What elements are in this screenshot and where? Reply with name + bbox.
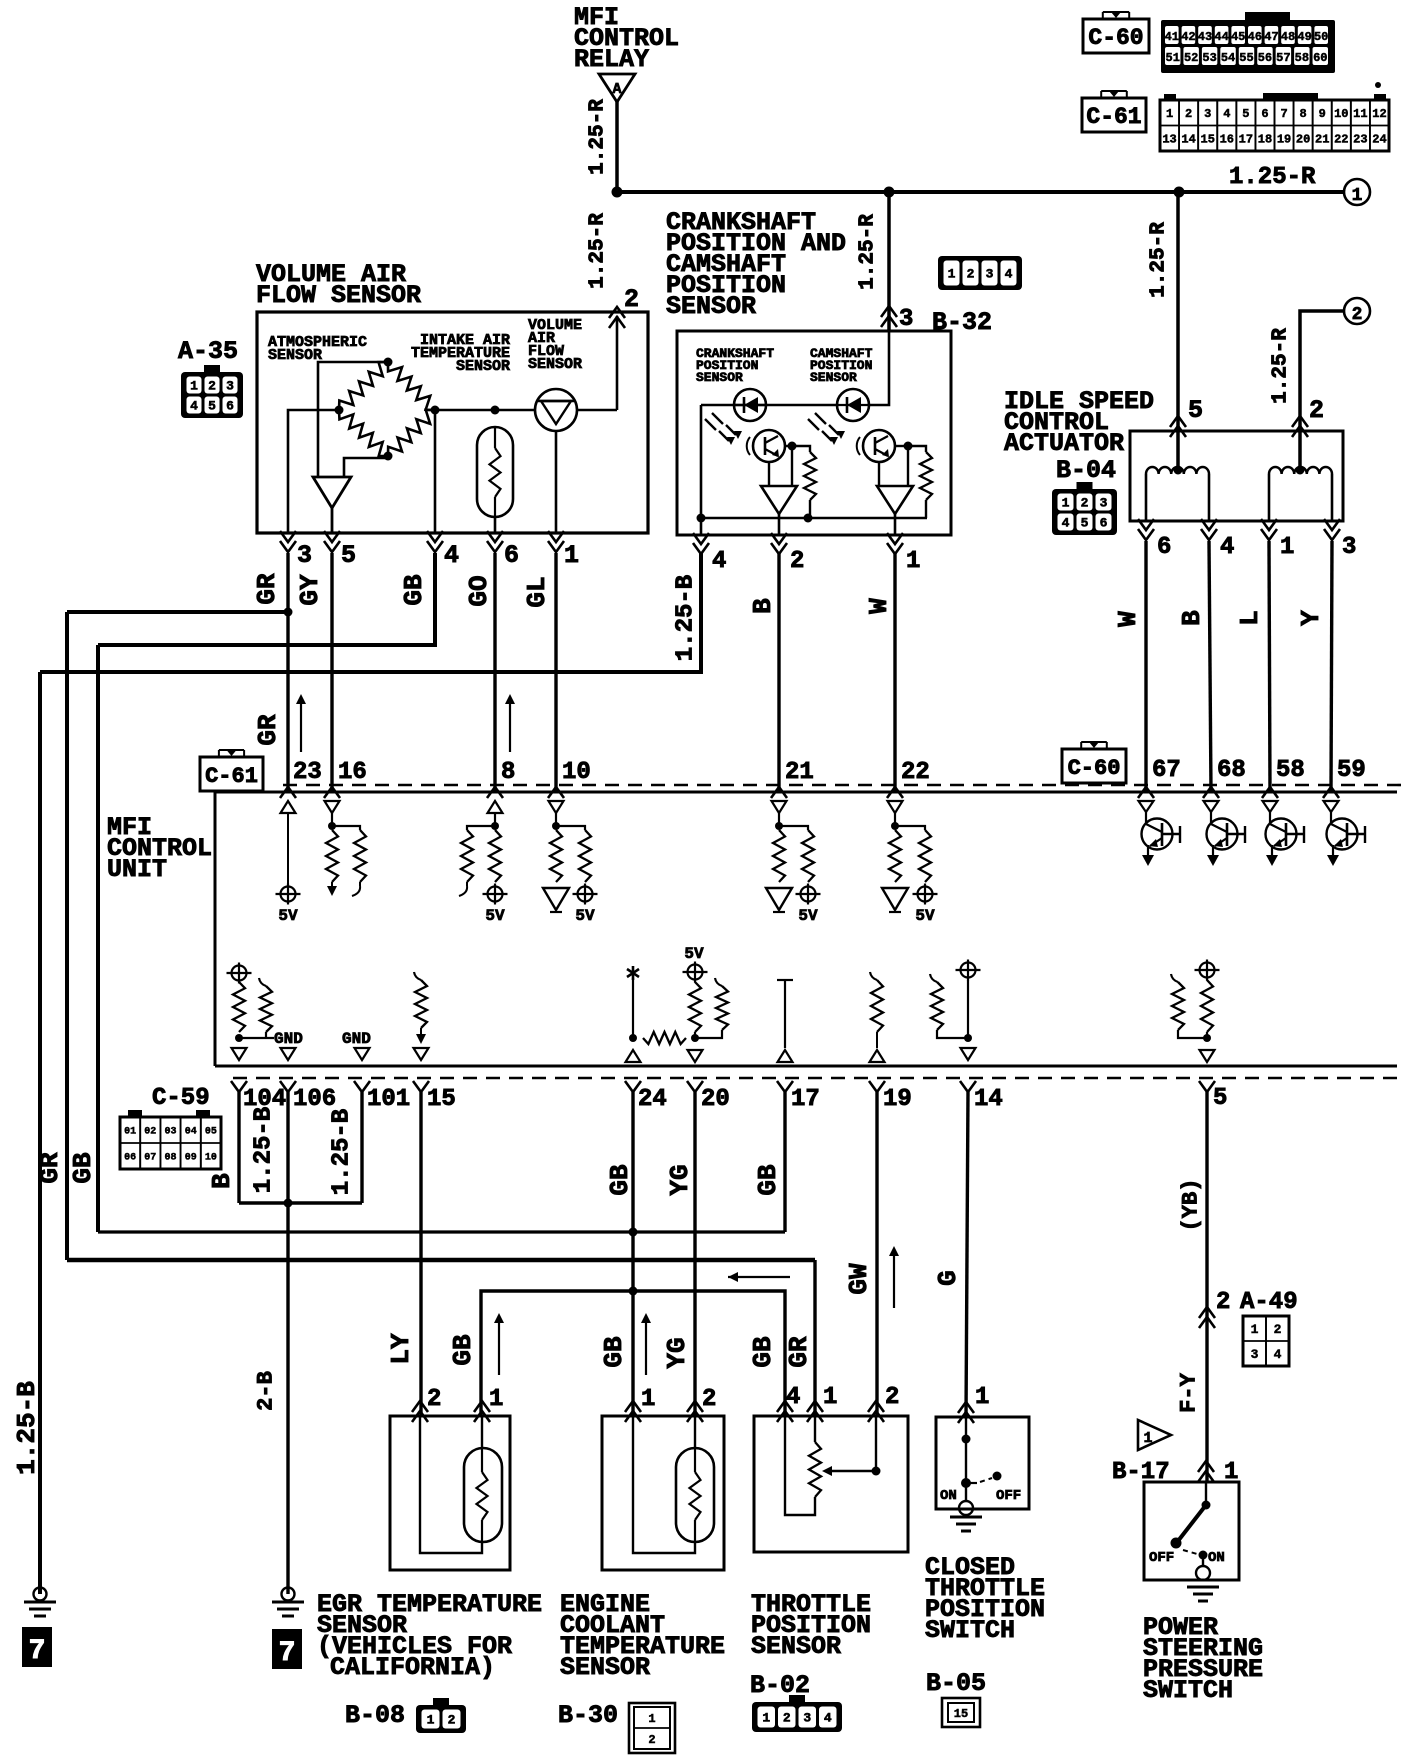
node crank phototransistor output	[788, 442, 797, 451]
svg-text:16: 16	[1220, 133, 1234, 147]
wire GR branch to left	[67, 610, 288, 614]
wire 1.25-B from B-32 pin4 turning left	[40, 553, 701, 672]
svg-text:57: 57	[1276, 51, 1290, 65]
transistor driver pin 59	[1324, 801, 1339, 812]
svg-text:C-59: C-59	[152, 1085, 210, 1112]
stray dot artifact	[1375, 82, 1381, 88]
svg-text:24: 24	[638, 1086, 667, 1113]
svg-text:SENSOR: SENSOR	[810, 370, 857, 385]
svg-text:1: 1	[1251, 1322, 1259, 1337]
pin 24 arrow and number	[625, 1081, 641, 1092]
svg-text:1: 1	[948, 267, 956, 282]
LED camshaft position sensor	[837, 389, 869, 421]
svg-text:GW: GW	[844, 1263, 874, 1295]
wire GR horizontal to TPS pin 1	[67, 1258, 815, 1263]
amplifier triangle cam	[877, 486, 913, 514]
node GR branch junction	[284, 608, 293, 617]
svg-text:B: B	[1177, 610, 1207, 626]
CTP dashed throw to OFF	[980, 1478, 992, 1482]
pin 104 internal: 5V source and resistors	[232, 966, 247, 981]
pin 1 arrow into power steering switch	[1198, 1461, 1214, 1472]
wire node to resistor cam	[908, 446, 926, 452]
connector C-60 pin diagram	[1245, 12, 1290, 20]
svg-text:1.25-R: 1.25-R	[587, 99, 610, 175]
svg-text:A-35: A-35	[178, 337, 238, 366]
svg-text:101: 101	[367, 1086, 410, 1113]
svg-text:B-32: B-32	[932, 308, 992, 337]
wire cam node to amplifier	[907, 446, 909, 486]
ISC coil 2	[1269, 467, 1332, 474]
pin 106 GND triangle	[281, 1048, 296, 1060]
svg-text:19: 19	[883, 1086, 912, 1113]
svg-text:03: 03	[164, 1127, 176, 1138]
svg-text:46: 46	[1248, 30, 1262, 44]
svg-text:SENSOR: SENSOR	[751, 1632, 841, 1661]
svg-text:08: 08	[164, 1153, 176, 1164]
connector B-04 pin diagram	[1077, 482, 1093, 490]
wire crank node to amplifier	[791, 446, 793, 486]
svg-text:10: 10	[562, 759, 591, 786]
svg-text:5V: 5V	[798, 907, 818, 925]
wire LED supply segment	[734, 404, 837, 407]
signal arrow up beside GR	[300, 702, 302, 752]
svg-text:5: 5	[208, 399, 216, 414]
svg-text:42: 42	[1181, 30, 1195, 44]
pin 4 entry arrow TPS	[777, 1401, 793, 1412]
svg-text:16: 16	[338, 759, 367, 786]
wire 1.25-B from pin 106	[286, 1092, 289, 1203]
svg-text:09: 09	[185, 1153, 197, 1164]
EGR temperature sensor box outline	[390, 1416, 510, 1570]
svg-text:1: 1	[1166, 107, 1173, 121]
wire photo to node crank	[785, 445, 792, 447]
wire GR left vertical	[65, 612, 69, 1260]
pin 2 exit arrow B-32	[771, 543, 787, 554]
svg-text:GB: GB	[748, 1336, 778, 1368]
svg-text:1: 1	[427, 1713, 435, 1728]
wire VAF pin2 internal	[616, 316, 619, 410]
svg-text:58: 58	[1276, 757, 1305, 784]
svg-text:B: B	[207, 1173, 237, 1189]
svg-text:20: 20	[1296, 133, 1310, 147]
pin 10 arrow and number	[548, 787, 564, 798]
wire ground bracket joining pins 104/106/101	[239, 1201, 362, 1204]
pin 24 internal: star node and resistor to pin 20	[632, 966, 635, 980]
pin 68 arrow and number	[1203, 787, 1219, 798]
svg-text:6: 6	[1157, 534, 1171, 561]
pin 3 exit arrow VAF	[280, 541, 296, 552]
svg-text:4: 4	[1274, 1347, 1282, 1362]
svg-text:5: 5	[1188, 396, 1203, 425]
pin 6 exit arrow VAF	[487, 541, 503, 552]
svg-text:02: 02	[144, 1127, 156, 1138]
bridge node left	[335, 406, 344, 415]
svg-text:5: 5	[1213, 1085, 1227, 1112]
svg-text:L: L	[1235, 610, 1265, 626]
wire GB horizontal from left to pin 17	[98, 1230, 785, 1233]
svg-text:GB: GB	[599, 1336, 629, 1368]
svg-text:GR: GR	[253, 714, 283, 746]
svg-text:Y: Y	[1296, 610, 1326, 626]
transistor driver pin 68	[1204, 801, 1219, 812]
svg-text:19: 19	[1277, 133, 1291, 147]
pin 16 arrow and number	[324, 787, 340, 798]
svg-text:G: G	[933, 1270, 963, 1286]
node PSP ON contact	[1199, 1551, 1208, 1560]
svg-text:5V: 5V	[278, 907, 298, 925]
svg-text:1: 1	[1062, 496, 1070, 511]
svg-text:52: 52	[1184, 51, 1198, 65]
svg-text:B-30: B-30	[558, 1701, 618, 1730]
svg-text:RELAY: RELAY	[574, 45, 649, 74]
svg-text:4: 4	[1005, 267, 1013, 282]
svg-text:OFF: OFF	[1149, 1550, 1174, 1566]
pin 4 exit arrow VAF	[427, 541, 443, 552]
svg-text:B: B	[748, 598, 778, 614]
node GB junction at ECT wire on EGR horizontal	[629, 1287, 638, 1296]
chassis ground for 2-B wire	[282, 1588, 295, 1601]
atmospheric sensor bridge resistor bottom-right	[388, 410, 435, 456]
pin 6 exit arrow ISC	[1138, 529, 1154, 540]
volume air flow sensor symbol (circle with triangle)	[535, 389, 577, 431]
svg-text:1.25-B: 1.25-B	[673, 575, 700, 661]
svg-text:13: 13	[1162, 133, 1176, 147]
svg-text:6: 6	[226, 399, 234, 414]
svg-text:5V: 5V	[684, 945, 704, 963]
svg-text:2: 2	[208, 379, 216, 394]
svg-text:3: 3	[803, 1711, 811, 1726]
chassis ground CTP	[950, 1516, 982, 1519]
pin 2 entry arrow ECT	[687, 1401, 703, 1412]
svg-text:GR: GR	[784, 1336, 814, 1368]
svg-text:15: 15	[954, 1707, 968, 1721]
wire flow sensor to pin 1	[555, 431, 558, 533]
svg-text:6: 6	[504, 541, 519, 570]
wire 1.25-B left vertical to ground	[38, 672, 42, 1594]
svg-text:3: 3	[1204, 107, 1211, 121]
crank/cam position sensor box outline	[677, 331, 951, 535]
svg-text:1: 1	[641, 1386, 655, 1413]
svg-text:2: 2	[648, 1733, 655, 1747]
svg-text:2: 2	[1352, 305, 1363, 325]
transistor driver pin 58	[1263, 801, 1278, 812]
pin 58 arrow and number	[1262, 787, 1278, 798]
pin 20 arrow and number	[687, 1081, 703, 1092]
wire W from ISC pin6 to MFI pin 67	[1144, 541, 1147, 792]
pin 67 arrow and number	[1138, 787, 1154, 798]
volume air flow sensor box B-... outline	[257, 312, 648, 533]
bridge node right	[431, 406, 440, 415]
TPS potentiometer resistor	[814, 1416, 816, 1442]
svg-text:2: 2	[1274, 1322, 1282, 1337]
wire EGR internal return	[420, 1416, 482, 1553]
svg-text:C-61: C-61	[205, 764, 258, 789]
svg-text:05: 05	[205, 1127, 217, 1138]
wire bridge top node to amplifier	[318, 362, 388, 477]
connector label box C-61 at MFI unit	[200, 757, 263, 791]
wire cam amp output to pin 1	[894, 514, 897, 535]
svg-text:45: 45	[1231, 30, 1245, 44]
svg-text:54: 54	[1221, 51, 1235, 65]
svg-text:4: 4	[444, 541, 459, 570]
wire GB horizontal EGR pin1 to TPS pin4	[481, 1291, 785, 1416]
svg-text:8: 8	[501, 759, 515, 786]
svg-text:SENSOR: SENSOR	[696, 370, 743, 385]
svg-text:1.25-B: 1.25-B	[329, 1109, 356, 1195]
CTP output circle to ground	[965, 1483, 967, 1501]
svg-text:56: 56	[1258, 51, 1272, 65]
node CTP upper	[962, 1435, 971, 1444]
svg-text:GND: GND	[342, 1030, 371, 1048]
node PSP pivot	[1202, 1501, 1211, 1510]
connector B-30 pin diagram	[629, 1703, 675, 1753]
closed throttle position switch box outline	[936, 1417, 1029, 1509]
connector B-02 pin diagram	[789, 1695, 805, 1703]
svg-text:SENSOR: SENSOR	[560, 1653, 650, 1682]
svg-text:7: 7	[29, 1636, 46, 1667]
svg-text:1: 1	[1143, 1430, 1152, 1447]
wire photo to node cam	[895, 445, 908, 447]
svg-text:44: 44	[1214, 30, 1228, 44]
svg-text:ON: ON	[1208, 1550, 1225, 1566]
svg-text:3: 3	[226, 379, 234, 394]
svg-text:07: 07	[144, 1153, 156, 1164]
svg-text:20: 20	[701, 1086, 730, 1113]
ECT thermistor capsule	[694, 1416, 696, 1448]
svg-text:3: 3	[986, 267, 994, 282]
svg-text:FLOW SENSOR: FLOW SENSOR	[256, 281, 421, 310]
node coil1 center tap	[1177, 468, 1180, 470]
svg-text:2: 2	[427, 1386, 441, 1413]
svg-text:3: 3	[1251, 1347, 1259, 1362]
pin 1 entry arrow TPS	[807, 1401, 823, 1412]
engine coolant temperature sensor box outline	[602, 1416, 724, 1570]
svg-text:W: W	[864, 598, 894, 614]
connector label box C-60	[1083, 19, 1149, 53]
svg-text:GY: GY	[295, 574, 325, 606]
node CTP OFF contact	[993, 1472, 1002, 1481]
svg-text:1: 1	[648, 1712, 655, 1726]
connector B-32 pin diagram	[938, 256, 1022, 290]
pin 2 entry arrow ISC	[1292, 416, 1308, 427]
ground reference box 7 far left	[22, 1627, 52, 1667]
wire GO from VAF pin6 to MFI pin 8	[493, 553, 496, 792]
signal arrow left near TPS feed	[728, 1276, 790, 1278]
chassis ground PSP	[1187, 1586, 1219, 1589]
svg-text:49: 49	[1297, 30, 1311, 44]
svg-text:7: 7	[1280, 107, 1287, 121]
svg-text:8: 8	[1300, 107, 1307, 121]
svg-text:24: 24	[1372, 133, 1386, 147]
svg-text:YG: YG	[662, 1337, 692, 1368]
pin 2 entry arrow TPS	[868, 1401, 884, 1412]
connector B-08 pin diagram	[433, 1698, 449, 1706]
connector dashed line C-59	[233, 1077, 1405, 1080]
svg-text:6: 6	[1100, 516, 1108, 531]
wire bridge right node down to pin 4	[434, 410, 437, 533]
wire 1.25-R from circle 2 to ISC pin 2	[1300, 311, 1344, 468]
pin 16 internal: divider resistors	[325, 801, 340, 813]
svg-text:2: 2	[885, 1384, 899, 1411]
wire bridge bottom node to amplifier	[344, 456, 388, 477]
wire 2-B down to ground	[286, 1203, 289, 1594]
svg-text:2: 2	[624, 285, 639, 314]
svg-text:2: 2	[783, 1711, 791, 1726]
pin 1 entry arrow ECT	[625, 1401, 641, 1412]
svg-text:7: 7	[279, 1638, 296, 1669]
svg-text:4: 4	[1220, 534, 1234, 561]
svg-text:55: 55	[1239, 51, 1253, 65]
svg-text:51: 51	[1166, 51, 1180, 65]
light arrows camshaft	[815, 413, 826, 424]
svg-text:GB: GB	[399, 574, 429, 606]
svg-text:1.25-R: 1.25-R	[857, 214, 880, 290]
pin 22 internal: resistor to comparator and 5V	[888, 801, 903, 813]
off-page connector circle 1	[1344, 179, 1370, 205]
pin 1 entry arrow EGR	[474, 1401, 490, 1412]
connector B-05 pin diagram	[942, 1698, 980, 1727]
svg-text:3: 3	[899, 306, 913, 333]
off-page connector triangle A (MFI control relay)	[599, 74, 635, 102]
wire left rail B-32 pin4	[700, 405, 703, 535]
svg-text:SENSOR: SENSOR	[666, 292, 756, 321]
atmospheric sensor bridge resistor bottom-left	[339, 410, 388, 456]
svg-text:14: 14	[1181, 133, 1195, 147]
svg-text:1.25-R: 1.25-R	[1229, 164, 1316, 191]
svg-text:04: 04	[185, 1127, 197, 1138]
wire W from B-32 pin1 to MFI pin 22	[893, 553, 896, 792]
transistor driver pin 67	[1139, 801, 1154, 812]
wire G from pin 14 to CTP switch pin 1	[966, 1092, 968, 1416]
svg-text:B-08: B-08	[345, 1701, 405, 1730]
svg-text:B-05: B-05	[926, 1669, 986, 1698]
off-page connector circle 2	[1344, 298, 1370, 324]
svg-text:4: 4	[190, 399, 198, 414]
svg-text:4: 4	[1223, 107, 1230, 121]
node coil2 center tap	[1299, 468, 1302, 470]
wire 1.25-B from pin 101	[360, 1092, 363, 1203]
svg-text:(YB): (YB)	[1179, 1179, 1204, 1232]
svg-text:1.25-B: 1.25-B	[12, 1381, 42, 1475]
wire B from ISC pin4 to MFI pin 68	[1209, 541, 1211, 792]
pin 8 internal: divider to 5V	[488, 801, 503, 813]
node PSP OFF contact	[1171, 1538, 1182, 1549]
node crank resistor to bus	[804, 514, 813, 523]
svg-text:ACTUATOR: ACTUATOR	[1004, 429, 1124, 458]
pin 22 arrow and number	[887, 787, 903, 798]
svg-text:GB: GB	[68, 1152, 98, 1184]
svg-text:9: 9	[1319, 107, 1326, 121]
svg-text:GB: GB	[448, 1334, 478, 1366]
svg-text:5V: 5V	[485, 907, 505, 925]
svg-text:1: 1	[564, 541, 579, 570]
svg-text:B-04: B-04	[1056, 456, 1116, 485]
svg-text:43: 43	[1198, 30, 1212, 44]
svg-text:GB: GB	[753, 1164, 783, 1196]
svg-text:1.25-R: 1.25-R	[587, 213, 610, 289]
svg-text:5: 5	[1081, 516, 1089, 531]
svg-text:LY: LY	[386, 1333, 416, 1365]
wire node to resistor crank	[792, 446, 810, 452]
svg-text:YG: YG	[665, 1164, 695, 1195]
CTP switch contact wire	[965, 1417, 967, 1483]
pin 4 exit arrow ISC	[1201, 529, 1217, 540]
signal arrow up beside GO	[509, 702, 511, 752]
svg-text:CALIFORNIA): CALIFORNIA)	[330, 1653, 495, 1682]
svg-text:1.25-B: 1.25-B	[251, 1107, 278, 1193]
wire thermistor to pin 6	[494, 517, 497, 533]
svg-text:60: 60	[1313, 51, 1327, 65]
svg-text:4: 4	[824, 1711, 832, 1726]
pin 5 exit arrow VAF	[324, 541, 340, 552]
svg-text:GND: GND	[274, 1030, 303, 1048]
svg-text:1: 1	[906, 548, 920, 575]
svg-text:17: 17	[791, 1086, 820, 1113]
pin 101 GND triangle	[355, 1048, 370, 1060]
wire GR from VAF pin3 down to MFI pin 23	[286, 553, 289, 792]
svg-text:W: W	[1113, 611, 1143, 627]
amplifier triangle in VAF	[313, 477, 351, 508]
connector label box C-61	[1082, 98, 1146, 132]
svg-text:ON: ON	[940, 1488, 957, 1504]
svg-text:18: 18	[1258, 133, 1272, 147]
off-page triangle 1 near B-17	[1138, 1420, 1171, 1450]
connector C-59 pin diagram	[128, 1110, 142, 1117]
PSP switch blade to OFF	[1178, 1505, 1206, 1541]
wire GY from VAF pin5 to MFI pin 16	[330, 553, 333, 792]
svg-text:SWITCH: SWITCH	[925, 1616, 1015, 1645]
signal arrow up beside GW	[893, 1254, 895, 1308]
svg-text:6: 6	[1261, 107, 1268, 121]
svg-text:14: 14	[974, 1086, 1003, 1113]
svg-text:1: 1	[762, 1711, 770, 1726]
svg-text:67: 67	[1152, 757, 1181, 784]
svg-text:4: 4	[712, 548, 726, 575]
svg-text:22: 22	[901, 759, 930, 786]
pin 21 internal: resistor to comparator and 5V	[772, 801, 787, 813]
PSP switch wire from pin 1	[1205, 1482, 1207, 1505]
pin 5 entry arrow ISC	[1170, 416, 1186, 427]
wire GB from VAF pin4 turning left	[98, 553, 435, 645]
svg-text:SWITCH: SWITCH	[1143, 1676, 1233, 1705]
svg-text:SENSOR: SENSOR	[268, 347, 322, 364]
node junction to intake air temp sensor	[491, 406, 500, 415]
svg-text:12: 12	[1372, 107, 1386, 121]
svg-text:48: 48	[1281, 30, 1295, 44]
pin 17 arrow and number	[777, 1081, 793, 1092]
svg-text:3: 3	[1342, 534, 1356, 561]
svg-text:2: 2	[1309, 396, 1324, 425]
svg-text:F-Y: F-Y	[1177, 1372, 1202, 1412]
LED crankshaft position sensor	[734, 389, 766, 421]
wire TPS resistor bottom to pin 4	[785, 1416, 815, 1515]
ISC coil 1	[1146, 467, 1209, 474]
svg-text:GL: GL	[522, 576, 552, 607]
pin 59 arrow and number	[1323, 787, 1339, 798]
connector dashed line C-61/C-60	[283, 784, 1404, 787]
chassis ground far left	[34, 1588, 47, 1601]
svg-text:GR: GR	[252, 573, 282, 605]
svg-text:41: 41	[1165, 30, 1179, 44]
svg-text:10: 10	[205, 1153, 217, 1164]
PSP output circle to ground	[1202, 1555, 1204, 1566]
svg-text:53: 53	[1202, 51, 1216, 65]
pin 8 arrow and number	[487, 787, 503, 798]
node cam phototransistor output	[904, 442, 913, 451]
node ground bracket junction	[284, 1199, 293, 1208]
wire bridge right node to flow sensor	[435, 409, 535, 412]
pin 15 internal resistor	[414, 972, 421, 980]
